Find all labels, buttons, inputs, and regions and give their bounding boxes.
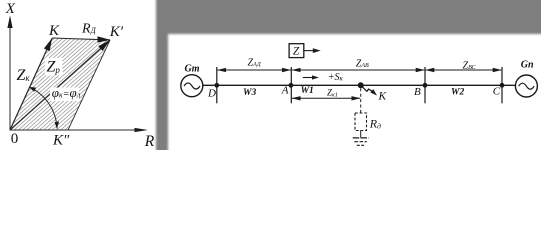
bus tick B — [424, 67, 426, 103]
edge K'-K'' — [68, 40, 110, 130]
svg-text:C: C — [493, 85, 501, 97]
dimension Zk1 — [292, 97, 360, 99]
dimension ZAD — [218, 69, 291, 71]
bus tick D — [216, 67, 218, 103]
ground symbol — [353, 137, 369, 139]
vector 0-K (Zk) — [10, 38, 52, 130]
svg-text:K: K — [48, 23, 60, 39]
svg-text:K: K — [378, 91, 388, 103]
svg-text:A: A — [281, 85, 289, 97]
label phi-k = phi-l with white box — [50, 88, 79, 102]
svg-text:+Sк: +Sк — [328, 72, 344, 83]
svg-text:0: 0 — [11, 131, 18, 147]
resistor Rd — [355, 113, 367, 131]
wire: main transmission line D-A-B-C — [203, 84, 516, 86]
generator Gn circle — [515, 75, 537, 97]
bus tick A — [290, 67, 292, 103]
X axis — [9, 26, 11, 131]
dimension ZBC — [426, 69, 502, 71]
svg-text:Gn: Gn — [521, 60, 534, 71]
generator Gn sine symbol — [519, 83, 535, 89]
svg-text:W1: W1 — [301, 86, 314, 96]
svg-text:X: X — [5, 1, 16, 17]
svg-text:B: B — [414, 86, 421, 98]
svg-text:K″: K″ — [52, 132, 70, 148]
svg-text:W2: W2 — [451, 88, 464, 98]
+Sk arrow — [303, 77, 313, 79]
dimension ZAB — [292, 69, 424, 71]
vector 0-K' (Zp) — [10, 40, 110, 130]
node D junction dot — [214, 83, 219, 88]
relay direction arrow — [304, 50, 314, 52]
label Zp with white box — [45, 58, 63, 76]
relay Z box U1 — [289, 44, 304, 58]
svg-text:Z: Z — [293, 46, 300, 58]
svg-text:D: D — [207, 88, 216, 100]
wire: dashed lead from node K to resistor Rd — [360, 88, 362, 113]
fault marker arrow at node K — [362, 87, 372, 92]
segment K-K' (Rd) — [52, 38, 110, 40]
svg-text:Gm: Gm — [185, 63, 200, 74]
hatched parallelogram 0-K-K'-K'' — [10, 38, 110, 130]
svg-text:W3: W3 — [243, 88, 256, 98]
R axis — [10, 129, 137, 131]
bus tick C — [501, 67, 503, 103]
generator Gm sine symbol — [184, 83, 200, 89]
node A junction dot — [289, 83, 294, 88]
generator Gm circle — [181, 75, 203, 97]
angle arc — [29, 87, 57, 128]
node C junction dot — [500, 83, 505, 88]
svg-text:K′: K′ — [109, 24, 124, 40]
gray scan background band — [156, 0, 541, 155]
node B junction dot — [423, 83, 428, 88]
wire: lead from resistor to ground — [360, 131, 362, 138]
fault node K dot — [358, 82, 364, 88]
svg-text:R: R — [144, 133, 155, 150]
